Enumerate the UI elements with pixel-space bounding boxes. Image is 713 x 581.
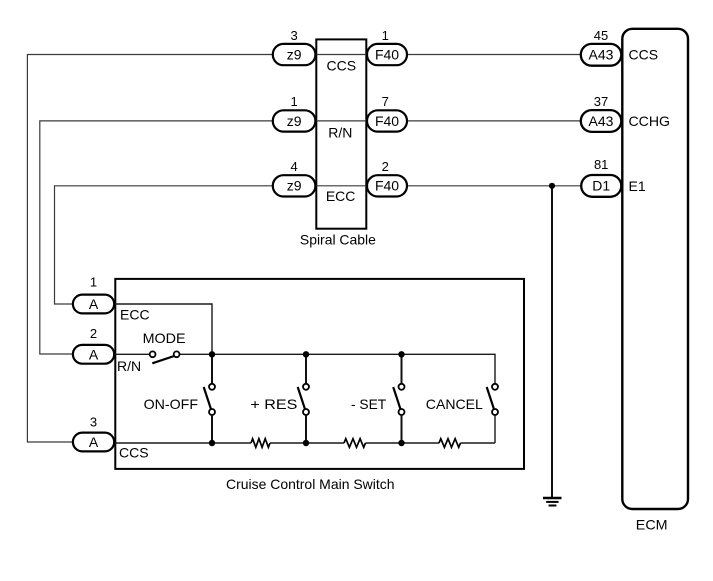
wire F40-2 to D1-81 bbox=[406, 185, 582, 187]
connector A pin 3 bbox=[73, 415, 114, 452]
net label ECC (switch block) bbox=[120, 306, 150, 322]
ECM block bbox=[622, 29, 688, 509]
pin label CCS (ECM) bbox=[629, 47, 659, 63]
svg-text:1: 1 bbox=[290, 94, 297, 109]
wire inside spiral cable row3 bbox=[315, 185, 368, 187]
svg-text:ECM: ECM bbox=[636, 517, 668, 533]
svg-text:F40: F40 bbox=[375, 113, 399, 129]
svg-text:ON-OFF: ON-OFF bbox=[144, 396, 198, 412]
svg-text:F40: F40 bbox=[375, 178, 399, 194]
junction dot + RES bottom bbox=[303, 440, 309, 446]
wire F40-7 to A43-37 bbox=[406, 120, 582, 122]
svg-text:2: 2 bbox=[382, 159, 389, 174]
net label CCS (switch block) bbox=[119, 445, 149, 461]
svg-text:3: 3 bbox=[290, 28, 297, 43]
wire F40-1 to A43-45 bbox=[406, 54, 582, 56]
svg-text:A: A bbox=[89, 296, 99, 312]
net label CCS (spiral cable) bbox=[327, 58, 357, 74]
junction dot + RES top bbox=[303, 351, 309, 357]
junction dot E1/ground bbox=[549, 183, 555, 189]
connector F40 pin 7 bbox=[367, 94, 407, 131]
net label R/N (spiral cable) bbox=[328, 124, 352, 140]
svg-text:1: 1 bbox=[90, 275, 97, 290]
label ECM bbox=[636, 517, 668, 533]
junction dot ON-OFF bottom bbox=[209, 440, 215, 446]
svg-text:81: 81 bbox=[594, 157, 608, 172]
svg-text:R/N: R/N bbox=[117, 358, 141, 374]
svg-text:A43: A43 bbox=[589, 47, 614, 63]
switch + RES bbox=[250, 354, 309, 443]
svg-text:3: 3 bbox=[90, 415, 97, 430]
switch MODE bbox=[143, 330, 186, 363]
label Cruise Control Main Switch bbox=[226, 476, 395, 492]
wire CCS net: z9-3 to A pin3 via left verticals bbox=[27, 55, 272, 443]
wire R/N net: z9-1 to A pin2 bbox=[40, 121, 273, 354]
svg-text:1: 1 bbox=[382, 28, 389, 43]
svg-text:z9: z9 bbox=[287, 178, 302, 194]
svg-text:CCS: CCS bbox=[629, 47, 659, 63]
svg-text:Spiral Cable: Spiral Cable bbox=[300, 231, 376, 247]
connector A pin 2 bbox=[73, 326, 114, 364]
svg-text:45: 45 bbox=[594, 28, 608, 43]
cruise control main switch block bbox=[115, 279, 524, 469]
svg-text:F40: F40 bbox=[375, 46, 399, 62]
wire ground drop from E1 net bbox=[551, 186, 553, 498]
svg-text:4: 4 bbox=[290, 159, 297, 174]
svg-text:CANCEL: CANCEL bbox=[426, 396, 483, 412]
svg-text:z9: z9 bbox=[287, 46, 302, 62]
connector A pin 1 bbox=[73, 275, 114, 314]
svg-text:A: A bbox=[89, 434, 99, 450]
svg-text:Cruise Control Main Switch: Cruise Control Main Switch bbox=[226, 476, 395, 492]
svg-text:2: 2 bbox=[90, 326, 97, 341]
svg-text:ECC: ECC bbox=[120, 306, 150, 322]
connector z9 pin 1 bbox=[273, 94, 316, 131]
connector A43 pin 45 bbox=[581, 28, 622, 66]
svg-text:- SET: - SET bbox=[351, 396, 387, 412]
svg-text:CCHG: CCHG bbox=[629, 113, 671, 129]
junction dot - SET top bbox=[398, 351, 404, 357]
net label R/N (switch block) bbox=[117, 358, 141, 374]
connector A43 pin 37 bbox=[581, 94, 622, 132]
wire inside spiral cable row1 bbox=[315, 54, 368, 56]
spiral cable block bbox=[316, 39, 366, 228]
svg-text:CCS: CCS bbox=[119, 445, 149, 461]
switch ON-OFF bbox=[144, 354, 215, 443]
svg-text:MODE: MODE bbox=[143, 330, 186, 346]
junction dot ECC/R-N row bbox=[209, 351, 215, 357]
connector z9 pin 3 bbox=[273, 28, 316, 65]
switch CANCEL bbox=[426, 384, 498, 415]
wire ECC inside switch block bbox=[114, 304, 212, 354]
svg-text:A43: A43 bbox=[589, 113, 614, 129]
net label ECC (spiral cable) bbox=[326, 188, 356, 204]
wire R/N row inside switch block bbox=[114, 354, 495, 384]
svg-text:D1: D1 bbox=[592, 178, 610, 194]
svg-text:+ RES: + RES bbox=[250, 396, 297, 412]
resistor between ON-OFF and + RES bbox=[251, 439, 270, 448]
pin label CCHG (ECM) bbox=[629, 113, 671, 129]
wire ECC net: z9-4 to A pin1 bbox=[55, 186, 273, 304]
svg-text:37: 37 bbox=[594, 94, 608, 109]
label Spiral Cable bbox=[300, 231, 376, 247]
pin label E1 (ECM) bbox=[629, 178, 646, 194]
connector F40 pin 2 bbox=[367, 159, 407, 197]
svg-text:z9: z9 bbox=[287, 113, 302, 129]
junction dot - SET bottom bbox=[398, 440, 404, 446]
connector F40 pin 1 bbox=[367, 28, 407, 65]
ground bbox=[543, 498, 562, 506]
svg-text:7: 7 bbox=[382, 94, 389, 109]
connector D1 pin 81 bbox=[581, 157, 621, 197]
svg-text:R/N: R/N bbox=[328, 124, 352, 140]
svg-text:ECC: ECC bbox=[326, 188, 356, 204]
svg-text:A: A bbox=[89, 346, 99, 362]
resistor between + RES and - SET bbox=[344, 439, 366, 448]
switch - SET bbox=[351, 354, 405, 443]
wire inside spiral cable row2 bbox=[315, 120, 368, 122]
resistor between - SET and CANCEL bbox=[439, 439, 461, 448]
svg-text:CCS: CCS bbox=[327, 58, 357, 74]
wire CCS bottom row inside switch block bbox=[114, 415, 495, 443]
connector z9 pin 4 bbox=[273, 159, 316, 197]
svg-text:E1: E1 bbox=[629, 178, 646, 194]
